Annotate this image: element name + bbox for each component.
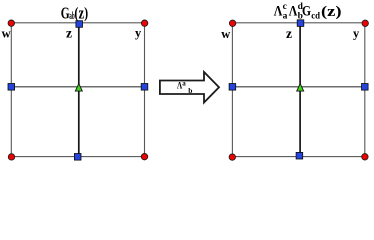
node: red circle left grid bottom-left — [8, 154, 14, 160]
svg-text:y: y — [135, 26, 142, 40]
label G_ab(z) above left grid — [61, 3, 88, 22]
svg-text:z: z — [286, 26, 292, 41]
wire: left grid horizontal midline — [11, 86, 144, 88]
label Lambda^c_a Lambda^d_b G_cd(z) above right grid — [274, 2, 342, 21]
node: blue square right grid left-middle — [229, 84, 236, 91]
svg-text:): ) — [84, 5, 88, 22]
svg-text:cd: cd — [311, 12, 320, 22]
wire: right grid horizontal midline — [232, 86, 364, 88]
svg-text:b: b — [188, 86, 192, 95]
node: blue square right grid right-middle — [362, 84, 369, 91]
svg-text:w: w — [2, 27, 11, 41]
wire: left grid outer border — [11, 23, 144, 157]
node y: red circle left grid top-right — [141, 20, 147, 26]
node z: blue square right grid top-middle — [297, 20, 304, 27]
svg-text:a: a — [283, 12, 288, 22]
node: green triangle right grid center — [297, 84, 304, 92]
node: blue square left grid left-middle — [8, 84, 15, 91]
node: red circle right grid bottom-right — [362, 154, 368, 160]
node: blue square left grid right-middle — [141, 84, 148, 91]
svg-text:a: a — [182, 79, 186, 87]
wire: right grid outer border — [232, 23, 364, 157]
wire: right grid vertical centerline — [299, 23, 301, 157]
svg-text:(z): (z) — [321, 4, 342, 20]
svg-text:Λ: Λ — [274, 4, 283, 20]
svg-text:Λ: Λ — [289, 4, 298, 20]
node w: red circle right grid top-left — [229, 20, 235, 26]
node: blue square right grid bottom-middle — [296, 152, 303, 159]
label Lambda^a_b inside arrow — [177, 79, 192, 95]
wire: left grid vertical centerline — [78, 23, 80, 157]
node y: red circle right grid top-right — [362, 20, 368, 26]
node: green triangle left grid center — [75, 84, 82, 92]
node: red circle left grid bottom-right — [141, 154, 147, 160]
node: red circle right grid bottom-left — [229, 154, 235, 160]
svg-text:w: w — [221, 27, 230, 41]
svg-text:G: G — [61, 3, 70, 22]
node w: red circle left grid top-left — [8, 20, 14, 26]
node z: blue square left grid top-middle — [76, 21, 83, 28]
arrow: block arrow between grids — [160, 72, 219, 103]
node: blue square left grid bottom-middle — [74, 154, 81, 161]
svg-text:G: G — [302, 4, 311, 20]
svg-text:y: y — [353, 26, 360, 40]
svg-text:z: z — [66, 26, 72, 41]
